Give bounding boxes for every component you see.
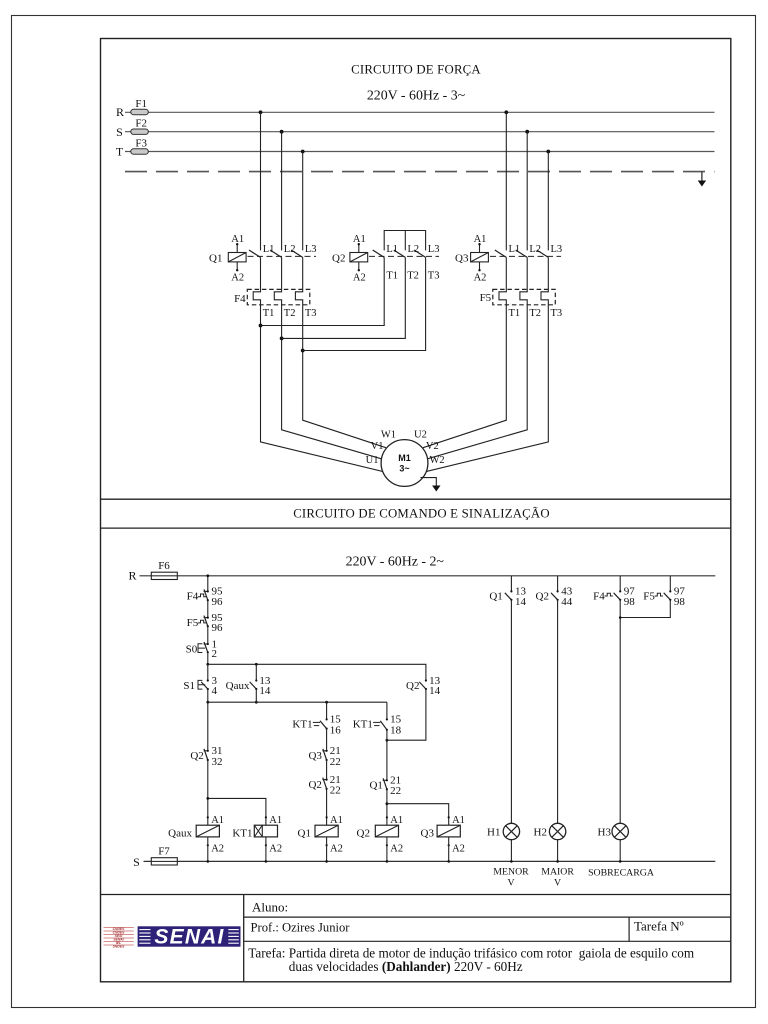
wire Q3 coil branch — [387, 804, 449, 826]
wire drop R-Q3 — [505, 112, 507, 250]
svg-text:Qaux: Qaux — [168, 828, 192, 840]
wire control bottom rail — [144, 860, 716, 862]
svg-text:T3: T3 — [305, 308, 317, 319]
svg-text:H1: H1 — [487, 827, 500, 839]
motor M1 — [381, 440, 428, 487]
svg-text:duas velocidades (Dahlander) 2: duas velocidades (Dahlander) 220V - 60Hz — [289, 959, 523, 974]
svg-text:A1: A1 — [330, 815, 343, 826]
wire S1 bottom — [207, 689, 209, 702]
contactor coil Q1 — [209, 234, 246, 284]
svg-text:L3: L3 — [428, 244, 440, 255]
svg-text:Q2: Q2 — [308, 779, 321, 791]
wire Q1-13 to H1 — [510, 600, 512, 824]
heater element F4 pole 2 + wire to motor — [274, 257, 381, 458]
heater element F5 pole 2 + wire to motor — [428, 257, 528, 458]
svg-text:F5: F5 — [643, 591, 655, 603]
contactor coil Q2 (control) — [357, 815, 404, 861]
contact Q2 13-14 (NO) — [419, 679, 427, 690]
wire drop T-Q1 — [302, 152, 304, 251]
heater element F5 pole 3 + wire to motor — [425, 257, 548, 471]
wire Q221-Q1 coil — [326, 789, 328, 825]
junction Q3 A2/rail — [447, 860, 450, 863]
svg-text:KT1: KT1 — [292, 719, 312, 731]
svg-text:220V - 60Hz - 3~: 220V - 60Hz - 3~ — [367, 89, 466, 104]
wire KT1a-Q321 — [326, 729, 328, 751]
svg-text:CIRCUITO DE FORÇA: CIRCUITO DE FORÇA — [351, 63, 481, 77]
title block row line 2 — [244, 940, 731, 942]
svg-text:Q2: Q2 — [190, 750, 203, 762]
junction KT1 A2/rail — [265, 860, 268, 863]
fuse F3 — [131, 149, 149, 154]
heater element F4 pole 1 + wire to motor — [253, 257, 384, 471]
contactor coil Q3 (control) — [421, 815, 465, 861]
svg-text:SENAI: SENAI — [154, 926, 224, 949]
svg-text:V: V — [554, 878, 561, 889]
svg-text:F7: F7 — [158, 846, 170, 858]
title block row line 1 — [244, 916, 731, 918]
thermal relay F4 box — [247, 289, 309, 304]
svg-text:98: 98 — [674, 596, 686, 608]
ground PE arrow — [698, 172, 706, 187]
svg-text:T1: T1 — [263, 308, 275, 319]
svg-text:4: 4 — [212, 685, 218, 697]
svg-text:A1: A1 — [390, 815, 403, 826]
svg-text:T1: T1 — [509, 308, 521, 319]
contact F5 95-96 (NC thermal) — [198, 616, 209, 628]
svg-text:14: 14 — [515, 596, 527, 608]
pushbutton S1 3-4 (NO) — [198, 679, 209, 690]
junction node B — [206, 701, 209, 704]
svg-text:Q3: Q3 — [455, 252, 469, 264]
wire Q121-Q2 coil — [386, 789, 388, 825]
drawing frame — [101, 39, 731, 982]
svg-text:Q3: Q3 — [421, 828, 435, 840]
contact Q1 13-14 (NO) contact — [505, 576, 513, 601]
svg-text:F4: F4 — [187, 591, 199, 603]
svg-text:Q1: Q1 — [369, 780, 382, 792]
svg-text:Qaux: Qaux — [226, 680, 250, 692]
svg-text:R: R — [128, 569, 136, 583]
contact Q2 pole L1 — [373, 250, 385, 257]
svg-text:SNDES: SNDES — [113, 944, 125, 948]
contactor coil Q3 — [455, 234, 488, 284]
svg-text:W2: W2 — [430, 455, 445, 466]
wire F5-98 jog — [620, 600, 670, 618]
wire KT1-15/18 col upper — [386, 702, 388, 719]
svg-text:16: 16 — [330, 724, 342, 736]
junction H2/rail — [556, 860, 559, 863]
contact KT1 15-18 (NO timed) — [373, 718, 388, 731]
wire KT1-15/16 col upper — [326, 702, 328, 719]
wire F4-97 to H3 — [619, 600, 621, 824]
node S-Q1 — [280, 130, 284, 134]
node R-Q3 — [504, 110, 508, 114]
svg-text:Q2: Q2 — [406, 680, 419, 692]
heater element F4 pole 3 + wire to motor — [295, 257, 386, 447]
contact Q1 pole L3 — [291, 250, 303, 257]
svg-text:U1: U1 — [366, 455, 379, 466]
svg-text:A2: A2 — [231, 273, 244, 284]
linkage Q2 poles dashed — [369, 255, 439, 257]
wire KT1 coil branch — [208, 798, 266, 825]
svg-text:L1: L1 — [263, 244, 275, 255]
svg-text:F1: F1 — [135, 98, 147, 110]
svg-text:96: 96 — [212, 596, 224, 608]
svg-text:Q3: Q3 — [308, 750, 322, 762]
wire Q2 T2 to junction — [282, 257, 406, 338]
wire drop S-Q3 — [526, 132, 528, 251]
junction node A — [206, 663, 209, 666]
lamp H1 — [487, 823, 520, 861]
svg-text:T2: T2 — [529, 308, 541, 319]
contact F4 95-96 (NC thermal) — [198, 589, 209, 601]
fuse F2 — [131, 129, 149, 134]
svg-text:SOBRECARGA: SOBRECARGA — [588, 868, 654, 879]
svg-text:KT1: KT1 — [232, 828, 252, 840]
wire drop R-Q1 — [260, 112, 262, 250]
svg-text:W1: W1 — [381, 430, 396, 441]
svg-text:V1: V1 — [371, 441, 384, 452]
svg-text:14: 14 — [259, 685, 271, 697]
svg-text:A1: A1 — [474, 234, 487, 245]
svg-text:18: 18 — [390, 724, 402, 736]
wire S1node-Q231 — [207, 702, 209, 751]
svg-text:T2: T2 — [284, 308, 296, 319]
svg-text:A2: A2 — [474, 273, 487, 284]
junction Q1T1/Q2T1 — [259, 324, 263, 328]
svg-text:96: 96 — [212, 622, 224, 634]
svg-text:3~: 3~ — [399, 464, 409, 474]
svg-text:R: R — [116, 105, 124, 119]
svg-text:T2: T2 — [407, 271, 419, 282]
svg-text:A2: A2 — [353, 273, 366, 284]
svg-text:V: V — [507, 878, 514, 889]
contact Q1 21-22 (NC) — [383, 778, 388, 790]
svg-text:22: 22 — [390, 785, 401, 797]
junction Q1T3/Q2T3 — [301, 349, 305, 353]
contact Q3 21-22 (NC) — [322, 749, 327, 761]
svg-text:MENOR: MENOR — [493, 867, 529, 878]
contact Q3 pole L1 — [495, 250, 507, 257]
svg-text:L3: L3 — [305, 244, 317, 255]
svg-text:M1: M1 — [398, 453, 411, 463]
svg-text:Aluno:: Aluno: — [252, 900, 288, 915]
svg-text:U2: U2 — [414, 430, 427, 441]
svg-text:MAIOR: MAIOR — [541, 867, 574, 878]
contact Q2 pole L3 — [414, 250, 426, 257]
wire PE dashed — [125, 171, 715, 173]
contact Qaux 13-14 (NO) — [250, 679, 258, 690]
wire branch row B — [208, 701, 387, 703]
wire phase S — [125, 131, 715, 133]
title block top line — [101, 894, 732, 896]
wire Q321-Q221 — [326, 760, 328, 780]
contact F5 97-98 (NO thermal) contact — [655, 576, 672, 601]
divider line upper — [101, 498, 732, 500]
svg-text:S: S — [133, 855, 140, 869]
svg-text:44: 44 — [561, 596, 573, 608]
wire phase T — [125, 151, 715, 153]
wire KT1b-Q121 — [386, 730, 388, 781]
contactor coil Q1 (control) — [298, 815, 343, 861]
junction H3/rail — [619, 860, 622, 863]
svg-text:A1: A1 — [269, 815, 282, 826]
svg-text:T1: T1 — [386, 271, 398, 282]
svg-text:Prof.: Ozires Junior: Prof.: Ozires Junior — [251, 921, 351, 935]
lamp H3 — [598, 823, 629, 861]
ground at motor — [421, 478, 441, 492]
node T-Q3 — [546, 150, 550, 154]
logo SENAI — [138, 926, 241, 949]
junction KT1 coil branch — [206, 797, 209, 800]
contact Q1 pole L2 — [270, 250, 282, 257]
wire main column upper — [207, 576, 209, 592]
svg-text:14: 14 — [429, 685, 441, 697]
wire S1 lead — [207, 664, 209, 680]
svg-text:A1: A1 — [231, 234, 244, 245]
svg-text:Q2: Q2 — [332, 252, 345, 264]
svg-text:Q2: Q2 — [536, 591, 549, 603]
wire F4-F5 — [207, 600, 209, 617]
node S-Q3 — [525, 130, 529, 134]
title block divider logo/fields — [243, 895, 245, 983]
fuse F6 — [151, 572, 177, 579]
wire Q2-43 to H2 — [557, 600, 559, 824]
wire Q2 shorting bracket — [384, 231, 425, 251]
heater element F5 pole 1 + wire to motor — [423, 257, 506, 447]
svg-text:A1: A1 — [452, 815, 465, 826]
svg-text:A2: A2 — [390, 844, 403, 855]
svg-text:H3: H3 — [598, 827, 612, 839]
svg-text:A2: A2 — [211, 844, 224, 855]
junction Qaux A2/rail — [207, 860, 210, 863]
pushbutton S0 1-2 (NC) — [198, 642, 209, 653]
svg-text:L1: L1 — [386, 244, 398, 255]
svg-text:CIRCUITO DE COMANDO E SINALIZA: CIRCUITO DE COMANDO E SINALIZAÇÃO — [293, 507, 550, 521]
contact Q3 pole L2 — [516, 250, 528, 257]
svg-text:L3: L3 — [551, 244, 563, 255]
divider line lower — [101, 527, 732, 529]
title block tarefa-no divider — [628, 917, 630, 941]
svg-text:S: S — [116, 125, 123, 139]
wire Qaux branch top — [255, 664, 257, 680]
svg-text:T: T — [116, 145, 124, 159]
svg-text:F5: F5 — [480, 292, 492, 304]
svg-text:F4: F4 — [593, 591, 605, 603]
wire drop S-Q1 — [281, 132, 283, 251]
svg-text:220V - 60Hz - 2~: 220V - 60Hz - 2~ — [346, 555, 445, 570]
svg-text:2: 2 — [212, 648, 218, 660]
junction Qaux top — [255, 663, 258, 666]
junction Q1 A2/rail — [325, 860, 328, 863]
wire S0-node — [207, 652, 209, 664]
contact Q2 31-32 (NC) — [204, 749, 209, 761]
svg-text:F4: F4 — [234, 293, 246, 305]
junction Q3 coil branch — [386, 802, 389, 805]
timer coil KT1 — [232, 815, 282, 861]
logo CNI emblem — [104, 927, 134, 949]
wire control top rail — [140, 575, 716, 577]
svg-text:A2: A2 — [330, 844, 343, 855]
svg-text:Q1: Q1 — [298, 828, 311, 840]
junction H1/rail — [510, 860, 513, 863]
svg-text:Q1: Q1 — [489, 591, 502, 603]
fuse F7 — [151, 858, 177, 865]
svg-text:T3: T3 — [551, 308, 563, 319]
contact Q1 pole L1 — [249, 250, 261, 257]
contact Q3 pole L3 — [537, 250, 549, 257]
svg-text:F3: F3 — [135, 137, 147, 149]
node T-Q1 — [301, 150, 305, 154]
junction rail/main column — [206, 574, 209, 577]
svg-text:A1: A1 — [211, 815, 224, 826]
wire branch row A — [208, 664, 426, 680]
junction Q2 A2/rail — [386, 860, 389, 863]
svg-text:22: 22 — [330, 756, 341, 768]
contact Q2 21-22 (NC) — [322, 778, 327, 790]
svg-text:32: 32 — [212, 756, 223, 768]
svg-text:V2: V2 — [426, 441, 439, 452]
wire Q2 T3 to junction — [303, 257, 426, 350]
contact KT1 15-16 (NO timed) — [313, 718, 328, 729]
junction Q1T2/Q2T2 — [280, 337, 284, 341]
svg-text:S1: S1 — [183, 680, 195, 692]
linkage Q3 poles dashed — [490, 255, 561, 257]
svg-text:L2: L2 — [408, 244, 420, 255]
svg-text:T3: T3 — [428, 271, 440, 282]
svg-text:S0: S0 — [186, 643, 198, 655]
wire Q2 T1 to junction — [261, 257, 385, 325]
svg-text:98: 98 — [624, 596, 636, 608]
contact F4 97-98 (NO thermal) contact — [605, 576, 622, 601]
wire Q231-Qaux coil — [207, 760, 209, 825]
svg-text:F5: F5 — [187, 617, 199, 629]
svg-text:KT1: KT1 — [353, 719, 373, 731]
junction F5/F4 jog — [619, 616, 622, 619]
contact Q2 pole L2 — [394, 250, 406, 257]
svg-text:Q2: Q2 — [357, 828, 370, 840]
svg-text:H2: H2 — [534, 827, 547, 839]
junction KT1b bottom — [386, 739, 389, 742]
svg-text:L1: L1 — [509, 244, 521, 255]
contact Q2 43-44 (NO) contact — [551, 576, 559, 601]
svg-text:A2: A2 — [452, 844, 465, 855]
wire drop T-Q3 — [547, 152, 549, 251]
svg-text:A2: A2 — [269, 844, 282, 855]
relay coil Qaux — [168, 815, 224, 861]
junction KT1-15/16 top — [325, 701, 328, 704]
svg-text:Tarefa Nº: Tarefa Nº — [634, 919, 684, 934]
svg-text:F2: F2 — [135, 118, 147, 130]
wire F5-S0 — [207, 626, 209, 644]
wire phase R — [125, 111, 715, 113]
svg-text:L2: L2 — [529, 244, 541, 255]
svg-text:22: 22 — [330, 785, 341, 797]
svg-text:Q1: Q1 — [209, 252, 222, 264]
contactor coil Q2 — [332, 234, 368, 284]
svg-text:F6: F6 — [158, 560, 170, 572]
thermal relay F5 box — [493, 289, 556, 304]
wire Q2-13/14 to KT1 column — [387, 689, 426, 740]
linkage Q1 poles dashed — [248, 255, 317, 257]
fuse F1 — [131, 109, 149, 114]
node R-Q1 — [259, 110, 263, 114]
junction Qaux bottom — [255, 701, 258, 704]
lamp H2 — [534, 823, 566, 861]
svg-text:A1: A1 — [353, 234, 366, 245]
wire Qaux branch bottom — [255, 689, 257, 702]
svg-text:L2: L2 — [284, 244, 296, 255]
